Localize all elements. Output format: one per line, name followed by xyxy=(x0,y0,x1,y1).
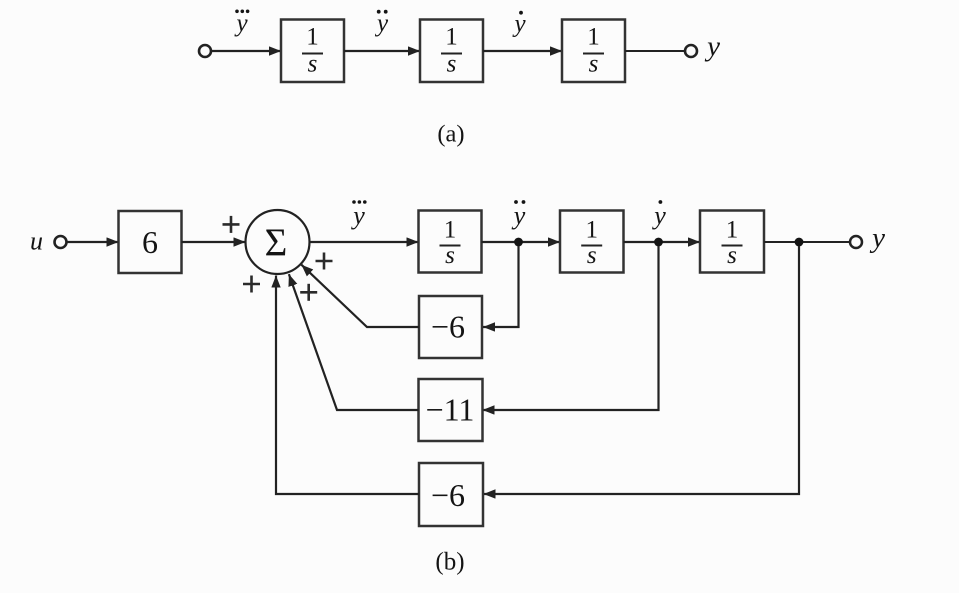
output terminal circle (a) xyxy=(685,45,697,57)
svg-text:y: y xyxy=(233,10,248,37)
wire F1 to summer (diagonal) xyxy=(301,265,419,327)
wire B3 to output xyxy=(764,241,850,243)
plus sign for F2 input (below right of summer) xyxy=(300,284,317,301)
integrator block A3 (1/s) xyxy=(562,20,625,83)
svg-text:y: y xyxy=(511,11,526,38)
svg-text:Σ: Σ xyxy=(265,221,288,264)
integrator block B1 (1/s) xyxy=(419,211,482,273)
wire B1 to B2 xyxy=(482,241,561,243)
node ydd (junction dot after B1) xyxy=(514,238,523,247)
svg-text:y: y xyxy=(511,201,526,230)
svg-text:s: s xyxy=(587,242,597,269)
wire node yd down to F2 xyxy=(483,246,659,410)
svg-text:y: y xyxy=(651,201,666,230)
svg-text:−11: −11 xyxy=(426,392,475,428)
svg-text:1: 1 xyxy=(444,217,457,244)
svg-text:s: s xyxy=(445,242,455,269)
svg-text:y: y xyxy=(374,10,389,37)
svg-text:y: y xyxy=(350,201,365,230)
wire input to gain 6 xyxy=(66,241,119,243)
integrator block B3 (1/s) xyxy=(700,211,764,273)
svg-text:s: s xyxy=(589,51,599,78)
svg-text:−6: −6 xyxy=(431,309,465,345)
wire A1 to A2 xyxy=(344,50,420,52)
svg-text:1: 1 xyxy=(587,24,600,51)
integrator block A2 (1/s) xyxy=(420,20,483,83)
wire F3 to summer (up into bottom) xyxy=(276,276,419,495)
svg-text:s: s xyxy=(308,51,318,78)
wire summer to B1 xyxy=(310,241,419,243)
feedback gain block F3 (-6) xyxy=(419,463,483,526)
feedback gain block F2 (-11) xyxy=(419,379,483,441)
label y-tripledot (a) input signal xyxy=(233,10,249,38)
input terminal circle (a) xyxy=(199,45,211,57)
wire A2 to A3 xyxy=(483,50,562,52)
svg-text:6: 6 xyxy=(142,224,158,260)
svg-text:1: 1 xyxy=(445,24,458,51)
svg-text:s: s xyxy=(727,242,737,269)
label y-doubledot (b) xyxy=(511,200,526,230)
wire input to A1 xyxy=(211,50,282,52)
gain block 6 xyxy=(119,211,182,273)
summing junction SIGMA xyxy=(246,210,310,274)
svg-text:1: 1 xyxy=(585,217,598,244)
wire B2 to B3 xyxy=(624,241,701,243)
svg-text:u: u xyxy=(30,227,43,256)
output terminal circle (b) xyxy=(850,236,862,248)
label y-dot (b) xyxy=(651,200,666,230)
svg-text:y: y xyxy=(869,222,885,254)
integrator block A1 (1/s) xyxy=(281,20,344,83)
input terminal circle (b) xyxy=(55,236,67,248)
plus sign at summer input (top-left) xyxy=(223,216,240,233)
wire A3 to output xyxy=(625,50,685,52)
label y-doubledot (a) xyxy=(374,10,389,37)
label y-dot (a) xyxy=(511,11,526,38)
node yd (junction dot after B2) xyxy=(654,238,663,247)
wire gain 6 to summer xyxy=(182,241,246,243)
svg-text:y: y xyxy=(704,31,720,63)
label y-tripledot (b) xyxy=(350,200,366,230)
svg-text:1: 1 xyxy=(726,217,739,244)
svg-text:−6: −6 xyxy=(431,477,465,513)
plus sign for F1 input (right of summer) xyxy=(316,253,333,270)
svg-text:(b): (b) xyxy=(435,549,464,576)
svg-text:s: s xyxy=(447,51,457,78)
wire node y down to F3 xyxy=(484,246,800,494)
wire node ydd down to F1 xyxy=(483,246,519,327)
feedback gain block F1 (-6) xyxy=(419,296,482,358)
plus sign for F3 input (bottom-left of summer) xyxy=(243,276,260,293)
integrator block B2 (1/s) xyxy=(560,211,624,273)
svg-text:(a): (a) xyxy=(437,121,464,148)
node y (junction dot before output) xyxy=(795,238,804,247)
svg-text:1: 1 xyxy=(306,24,319,51)
wire F2 to summer (diagonal) xyxy=(289,274,419,410)
